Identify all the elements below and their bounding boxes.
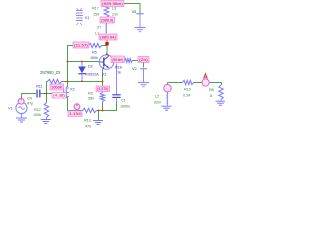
svg-text:159: 159 — [93, 12, 99, 17]
svg-text:R17: R17 — [92, 6, 99, 11]
svg-text:C1: C1 — [121, 98, 126, 103]
svg-text:X1: X1 — [102, 72, 106, 77]
svg-text:(11.57): (11.57) — [74, 44, 88, 48]
svg-text:27: 27 — [97, 25, 101, 30]
svg-text:L3: L3 — [112, 6, 116, 11]
svg-text:100k: 100k — [33, 112, 41, 117]
svg-text:R11: R11 — [36, 84, 42, 89]
svg-text:580: 580 — [88, 96, 95, 101]
svg-text:1.134: 1.134 — [69, 112, 81, 116]
svg-text:L2: L2 — [155, 94, 159, 99]
svg-text:L1: L1 — [95, 31, 99, 36]
svg-text:8: 8 — [210, 93, 212, 98]
svg-text:R8: R8 — [209, 87, 214, 92]
svg-text:47p: 47p — [27, 100, 33, 105]
svg-text:(4.38): (4.38) — [53, 94, 65, 98]
svg-text:470: 470 — [85, 124, 92, 129]
svg-text:(989.9): (989.9) — [101, 19, 113, 23]
svg-text:V1: V1 — [8, 106, 12, 111]
svg-text:R19: R19 — [184, 87, 191, 92]
svg-text:R13: R13 — [84, 118, 91, 123]
svg-text:V2: V2 — [132, 66, 136, 71]
svg-text:1000K: 1000K — [51, 86, 63, 90]
svg-text:D2: D2 — [88, 64, 93, 69]
svg-text:V5: V5 — [132, 9, 136, 14]
svg-text:1000u: 1000u — [120, 104, 130, 109]
svg-text:(2n): (2n) — [139, 58, 148, 62]
svg-text:K1: K1 — [85, 15, 89, 20]
svg-text:KD522A: KD522A — [85, 72, 99, 77]
svg-text:2N7980_ZX: 2N7980_ZX — [40, 70, 61, 75]
svg-text:1k: 1k — [117, 70, 121, 75]
svg-text:0.34: 0.34 — [183, 93, 191, 98]
svg-text:62m: 62m — [154, 100, 161, 105]
svg-text:21n: 21n — [112, 12, 118, 17]
svg-text:(98.6m): (98.6m) — [112, 58, 123, 62]
svg-text:(4.379): (4.379) — [97, 87, 108, 91]
svg-text:R5: R5 — [92, 50, 97, 55]
svg-text:100k: 100k — [90, 55, 98, 60]
svg-text:X2: X2 — [70, 87, 74, 92]
svg-text:(989.94): (989.94) — [100, 36, 116, 40]
